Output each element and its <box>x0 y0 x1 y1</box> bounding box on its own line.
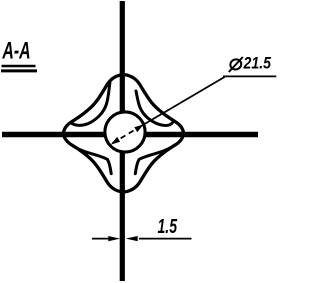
svg-text:21.5: 21.5 <box>243 54 272 73</box>
svg-text:A-A: A-A <box>2 38 31 65</box>
svg-text:1.5: 1.5 <box>158 216 178 238</box>
